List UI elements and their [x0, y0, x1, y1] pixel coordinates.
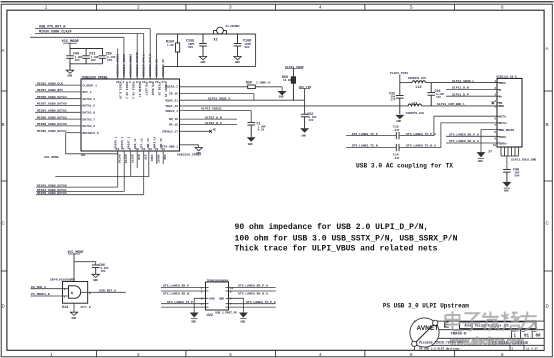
svg-text:STX_LANE0_RX_P_A: STX_LANE0_RX_P_A [449, 133, 479, 137]
svg-text:8: 8 [494, 131, 496, 134]
svg-text:25V: 25V [91, 59, 96, 62]
svg-text:AVNET: AVNET [417, 325, 439, 332]
label U22 [206, 288, 229, 308]
svg-text:PS_MODE3_B: PS_MODE3_B [31, 292, 50, 296]
wire bottom pin stub [156, 151, 158, 164]
svg-text:50V: 50V [515, 175, 520, 178]
pin names U8 left column [83, 84, 99, 135]
wire [149, 29, 151, 80]
svg-text:7: 7 [494, 124, 496, 127]
svg-text:10: 10 [493, 144, 497, 147]
svg-text:PS USB 3_0 ULPI Upstream: PS USB 3_0 ULPI Upstream [419, 347, 460, 350]
svg-text:01: 01 [524, 335, 530, 339]
wire net STX_LANE0_TX_N [161, 306, 206, 308]
inductor L12 [412, 81, 426, 83]
wire [117, 49, 119, 80]
svg-text:50V: 50V [245, 46, 250, 49]
wire output [81, 291, 126, 293]
wire input B [30, 295, 68, 297]
svg-text:U8: U8 [81, 154, 85, 158]
svg-text:2: 2 [137, 5, 140, 10]
capacitor C40 [503, 170, 511, 182]
svg-text:6.3V: 6.3V [258, 129, 265, 132]
svg-text:3: 3 [229, 5, 232, 10]
wire net MIO58_USB0_DATA6 [35, 125, 81, 127]
svg-text:16V: 16V [101, 270, 106, 273]
wire net right TX_N [229, 306, 276, 308]
wire ID [180, 93, 254, 95]
svg-text:TPD4E05U06DQA: TPD4E05U06DQA [207, 279, 229, 282]
svg-text:GNDC: GNDC [150, 155, 153, 162]
pin labels U8 top vertical [117, 52, 166, 77]
wire [123, 37, 125, 79]
svg-text:REFSEL0_8: REFSEL0_8 [83, 132, 99, 135]
svg-text:A: A [2, 48, 6, 53]
svg-text:STX_LANE0_RX_P: STX_LANE0_RX_P [163, 284, 189, 288]
wire net MIO43_USB0_DATA0 [36, 186, 118, 188]
svg-text:RESETB_27: RESETB_27 [138, 82, 141, 98]
svg-text:STX_LANE0_TX_P: STX_LANE0_TX_P [352, 132, 378, 136]
svg-text:SLP13_SHLD_GND: SLP13_SHLD_GND [511, 159, 536, 162]
svg-text:27P: 27P [391, 99, 396, 102]
svg-text:MIO57_USB0_DATA5: MIO57_USB0_DATA5 [37, 102, 67, 106]
glyph fa [482, 312, 500, 331]
wire net MIO57_USB0_DATA5 [35, 105, 81, 107]
svg-text:PG_PUB_A: PG_PUB_A [31, 285, 46, 289]
svg-text:GND: GND [478, 160, 483, 163]
svg-text:USB_OTG_RST_N: USB_OTG_RST_N [39, 26, 65, 30]
wire net MIO57_USB0_NXT [35, 91, 81, 93]
wire [73, 254, 75, 282]
ground [477, 152, 486, 157]
pin numbers U8 bottom [116, 148, 165, 151]
svg-text:USB3320_XO: USB3320_XO [162, 59, 165, 77]
and gate U14 [69, 286, 81, 298]
wire net MIO52_USB0_CLK [35, 84, 81, 86]
svg-text:10.0K: 10.0K [283, 79, 291, 82]
wire DP [180, 124, 238, 126]
svg-text:STX_LANE0_RX_N_A: STX_LANE0_RX_N_A [449, 139, 479, 143]
svg-text:STX_LANE0_RX_P_A: STX_LANE0_RX_P_A [238, 284, 268, 288]
svg-text:USB3320_SPK_R: USB3320_SPK_R [149, 54, 152, 77]
svg-text:1: 1 [50, 352, 53, 357]
svg-text:www.elecfans.com: www.elecfans.com [449, 337, 524, 348]
svg-text:USB_3_PROT_PU: USB_3_PROT_PU [215, 312, 237, 315]
svg-text:DATA3_7: DATA3_7 [83, 118, 96, 121]
svg-text:X2: X2 [214, 39, 218, 43]
pin names J7 [499, 82, 514, 145]
svg-text:L12: L12 [416, 85, 422, 89]
wire VDD33 [180, 109, 252, 111]
svg-text:MIO57_USB0_NXT: MIO57_USB0_NXT [37, 88, 63, 92]
svg-text:STX_LANE0_TX_P_A: STX_LANE0_TX_P_A [406, 132, 436, 136]
svg-text:STX_LANE0_RX_N_A: STX_LANE0_RX_N_A [238, 292, 268, 296]
svg-text:VBUS_21: VBUS_21 [165, 99, 178, 102]
wire [136, 34, 138, 80]
svg-text:GND: GND [248, 143, 253, 146]
svg-text:MIO54_USB0_DATA2: MIO54_USB0_DATA2 [37, 109, 67, 113]
svg-text:STX_LANE0_TX_P_A: STX_LANE0_TX_P_A [246, 300, 276, 304]
ground [92, 274, 99, 277]
svg-text:DATA4_9: DATA4_9 [83, 125, 96, 128]
wire REFSEL route [66, 133, 118, 154]
wire route [55, 151, 149, 177]
wire gnd left [194, 298, 205, 312]
glyph zi [463, 313, 481, 330]
svg-text:USB3320_VDD18: USB3320_VDD18 [130, 54, 133, 77]
svg-text:5: 5 [410, 352, 413, 357]
svg-text:PLACE_THIS: PLACE_THIS [390, 72, 408, 75]
svg-text:GND: GND [210, 298, 215, 301]
svg-text:SLP13_VBUS_L: SLP13_VBUS_L [452, 79, 474, 83]
svg-text:00: 00 [536, 335, 542, 339]
svg-text:CPEN13_17: CPEN13_17 [162, 130, 178, 133]
svg-text:4: 4 [89, 293, 91, 296]
svg-text:DATA1_5: DATA1_5 [83, 105, 96, 108]
svg-text:GND_DRAIN: GND_DRAIN [499, 129, 514, 132]
svg-text:DATA5_1: DATA5_1 [115, 136, 118, 148]
svg-text:24: 24 [155, 148, 159, 151]
wire net STX_LANE0_RX_N [446, 142, 497, 144]
glyph dian [445, 312, 462, 331]
svg-text:1.0K: 1.0K [167, 44, 174, 47]
svg-text:USB3320_XI: USB3320_XI [156, 59, 159, 77]
ground [278, 91, 287, 95]
ground [300, 128, 309, 132]
svg-text:GND: GND [72, 317, 77, 320]
wire bottom pin stub [130, 151, 132, 177]
svg-text:SPK_RGHT: SPK_RGHT [151, 82, 154, 96]
ground [247, 137, 256, 141]
svg-text:MIO52_USB0_CLK: MIO52_USB0_CLK [37, 81, 63, 85]
svg-text:NC: NC [213, 129, 217, 132]
capacitor C91 [82, 56, 90, 64]
svg-text:GND: GND [201, 61, 206, 64]
wire net USB_OTG_RST_N [35, 28, 150, 30]
svg-text:10: 10 [116, 148, 120, 151]
svg-text:SLP13_COM_GND_L: SLP13_COM_GND_L [437, 102, 465, 106]
ground [502, 182, 511, 187]
wire bottom pin stub [117, 151, 119, 187]
wire [70, 63, 103, 65]
svg-text:DP_16: DP_16 [169, 124, 178, 127]
ground [195, 148, 202, 151]
svg-text:VCC_MODE: VCC_MODE [62, 40, 80, 44]
svg-text:STX_LANE0_TX_N_A: STX_LANE0_TX_N_A [406, 144, 436, 148]
pin names U8 right column [162, 86, 178, 149]
wire net SLP13_D_P [446, 95, 497, 97]
wire net STX_LANE0_RX_P [161, 287, 206, 289]
svg-text:2.2OHM 1%: 2.2OHM 1% [256, 82, 271, 85]
svg-text:PS USB 3_0 ULPI Upstream: PS USB 3_0 ULPI Upstream [383, 302, 469, 310]
svg-text:ULPI2_VDD33: ULPI2_VDD33 [201, 107, 222, 111]
svg-text:VBAT_20: VBAT_20 [165, 105, 178, 108]
wire shield [506, 156, 508, 170]
wire net right RX_P [229, 287, 276, 289]
wire top rail [157, 33, 256, 35]
svg-text:GND: GND [396, 120, 401, 123]
wire [255, 34, 257, 67]
wire net MIO56_USB0_DATA4 [35, 98, 81, 100]
svg-text:ACYL_R: ACYL_R [81, 306, 91, 309]
wire net MIO44_USB0_DATA1 [36, 190, 124, 192]
svg-text:VCC_TUS: VCC_TUS [299, 86, 312, 89]
svg-text:USB3320_SPK_L: USB3320_SPK_L [143, 54, 146, 77]
svg-text:GND: GND [301, 135, 306, 138]
wire CTL GND [180, 145, 203, 155]
svg-text:16V: 16V [436, 96, 441, 99]
wire bottom rail from IC [180, 105, 409, 107]
svg-text:XTLIN_26: XTLIN_26 [157, 82, 160, 96]
svg-text:USB_RST_A: USB_RST_A [99, 289, 116, 293]
svg-text:MIO59_USB0_DATA7: MIO59_USB0_DATA7 [37, 129, 67, 133]
svg-text:GND: GND [196, 152, 201, 155]
wire bottom pin stub [136, 151, 138, 168]
wire [69, 43, 71, 55]
ground [234, 55, 241, 60]
watermark elecfans [445, 312, 538, 348]
svg-text:.01F: .01F [393, 157, 400, 160]
svg-text:C: C [2, 221, 6, 226]
svg-text:2: 2 [137, 352, 140, 357]
svg-text:D: D [546, 304, 550, 309]
svg-text:VDD33_B_20: VDD33_B_20 [118, 82, 121, 100]
svg-text:VDD18_CR_1: VDD18_CR_1 [125, 82, 128, 100]
wire net STX_LANE0_TX_P [161, 303, 206, 305]
svg-text:22: 22 [142, 148, 146, 151]
svg-text:9: 9 [494, 137, 496, 140]
wire to C96 [74, 261, 96, 263]
svg-text:U14: U14 [62, 306, 69, 310]
title field [460, 322, 537, 329]
capacitor C168 [234, 34, 242, 55]
svg-text:50V: 50V [188, 46, 193, 49]
pin numbers U8 top [116, 81, 165, 84]
wire bottom pin stub [162, 151, 164, 164]
svg-text:25V: 25V [75, 59, 80, 62]
ground [70, 312, 77, 315]
capacitor C34 series [396, 144, 399, 151]
resistor R50 [248, 85, 256, 89]
svg-text:ID_19: ID_19 [169, 93, 178, 96]
svg-text:B: B [2, 122, 5, 127]
wire RBIAS [180, 86, 248, 88]
svg-text:USB3320_VDD18: USB3320_VDD18 [123, 54, 126, 77]
svg-text:U22: U22 [207, 314, 213, 318]
svg-text:ULPI2_D_P: ULPI2_D_P [205, 121, 222, 125]
svg-text:GND: GND [504, 190, 509, 193]
svg-text:24.000MHZ: 24.000MHZ [226, 25, 240, 28]
wire DM [180, 118, 238, 120]
wire bottom rail [163, 66, 255, 68]
wire rail [70, 48, 103, 50]
svg-text:DATA2_6: DATA2_6 [83, 112, 96, 115]
svg-text:SSTX+: SSTX+ [499, 122, 508, 125]
svg-text:USB3131-30-A: USB3131-30-A [497, 76, 517, 79]
svg-text:GND: GND [219, 298, 224, 301]
svg-text:VDD18_CR_2: VDD18_CR_2 [131, 82, 134, 100]
svg-text:DATA0_4: DATA0_4 [83, 98, 96, 101]
wire net STX_LANE0_RX_P [446, 135, 497, 137]
inductor L11 [408, 104, 422, 106]
wire REFSEL [66, 132, 81, 134]
nc pin4 [492, 101, 495, 104]
wire vbus to connector [426, 82, 497, 84]
wire com gnd to connector [422, 105, 497, 107]
svg-text:ULPI2_D_N: ULPI2_D_N [205, 115, 222, 119]
svg-text:USB3320_RESETB: USB3320_RESETB [136, 52, 139, 77]
svg-text:FERRITE-1UH: FERRITE-1UH [406, 112, 424, 115]
svg-text:MIO58_USB0_DATA6: MIO58_USB0_DATA6 [37, 122, 67, 126]
svg-text:MIO56_USB0_DATA4: MIO56_USB0_DATA4 [37, 95, 67, 99]
wire [143, 34, 145, 80]
svg-text:3: 3 [229, 352, 232, 357]
IC U14 box [63, 282, 88, 304]
svg-text:6: 6 [501, 5, 504, 10]
svg-text:SLP13_D_N: SLP13_D_N [452, 86, 469, 90]
svg-text:MIO55_USB0_DATA3: MIO55_USB0_DATA3 [37, 115, 67, 119]
svg-text:MIO45_USB0_DATA5: MIO45_USB0_DATA5 [37, 191, 67, 195]
svg-text:GND: GND [235, 61, 240, 64]
wire bottom pin stub [123, 151, 125, 191]
IC U8 USB3320 body [81, 79, 180, 151]
svg-text:4: 4 [319, 5, 322, 10]
svg-text:VCC_MODE: VCC_MODE [68, 250, 84, 254]
svg-text:CLKOUT_1: CLKOUT_1 [83, 84, 98, 87]
wire net MIO36_USB0_CLK [35, 33, 144, 35]
svg-text:STX_LANE0_TX_N: STX_LANE0_TX_N [352, 144, 378, 148]
connector pin stubs [497, 83, 501, 143]
wire vbus stub [399, 75, 401, 96]
resistor R169 [176, 34, 180, 67]
wire net right TX_P [229, 303, 276, 305]
crystal X2 [214, 27, 227, 34]
title block outline [415, 321, 545, 350]
ground [395, 115, 404, 119]
svg-text:.01F: .01F [393, 129, 400, 132]
pin labels U8 bottom vertical [118, 155, 167, 164]
svg-text:23: 23 [162, 148, 166, 151]
svg-text:4: 4 [319, 352, 322, 357]
pin names U8 top inside vertical [118, 82, 167, 100]
svg-text:Thick trace for ULPI_VBUS and: Thick trace for ULPI_VBUS and related ne… [235, 245, 438, 254]
wire net STX_LANE0_RX_N [161, 290, 206, 292]
wire VCC_TUS stub [304, 89, 306, 115]
wire TX_N left [346, 147, 396, 149]
svg-text:GND: GND [93, 279, 98, 282]
svg-text:SLP13_D_P: SLP13_D_P [452, 92, 469, 96]
wire net MIO55_USB0_DATA3 [35, 118, 81, 120]
glyph shao [501, 312, 519, 331]
svg-text:MIO36_USB0_CLK24: MIO36_USB0_CLK24 [39, 31, 72, 35]
svg-text:R50: R50 [246, 81, 252, 85]
pins u22 [201, 287, 234, 306]
capacitor C166 [199, 34, 207, 55]
svg-text:MIO43_USB0_DATA0: MIO43_USB0_DATA0 [37, 183, 67, 187]
wire CPEN nc [180, 130, 211, 132]
svg-text:GND: GND [68, 75, 73, 78]
svg-text:6: 6 [494, 118, 496, 121]
svg-text:DATA6_1: DATA6_1 [121, 136, 124, 148]
pin names U8 bottom inside vertical [115, 136, 164, 148]
capacitor C92 [301, 114, 309, 128]
wire net MIO54_USB0_DATA2 [35, 111, 81, 113]
svg-text:J7: J7 [488, 149, 492, 153]
ground [66, 64, 73, 74]
wire gnd right [229, 298, 244, 312]
connector J7 body [497, 78, 522, 147]
wire [162, 67, 164, 79]
svg-text:VDD33_1: VDD33_1 [165, 110, 178, 113]
svg-text:VBAT_14: VBAT_14 [154, 136, 157, 148]
svg-text:16V: 16V [107, 59, 112, 62]
wire [130, 56, 132, 79]
capacitor C35 series [396, 132, 399, 139]
svg-text:XTLOUT_25: XTLOUT_25 [164, 82, 167, 98]
wire TX_N right [399, 123, 497, 148]
svg-text:DM_18: DM_18 [169, 118, 178, 121]
svg-text:4: 4 [494, 100, 496, 103]
svg-text:90 ohm impedance for USB 2.0 U: 90 ohm impedance for USB 2.0 ULPI_D_P/N, [235, 223, 429, 232]
svg-text:A: A [546, 46, 550, 51]
pin numbers J7 [493, 80, 497, 147]
svg-text:USB 3.0 AC coupling for TX: USB 3.0 AC coupling for TX [356, 163, 454, 171]
svg-text:11 4 27: 11 4 27 [526, 348, 538, 351]
wire [156, 34, 158, 79]
svg-text:GND: GND [279, 96, 284, 99]
wire top rail [400, 82, 412, 84]
svg-text:C: C [546, 221, 550, 226]
wire net VMODE [30, 36, 124, 38]
wire TX_P right [399, 116, 497, 135]
svg-text:VOL_MODE: VOL_MODE [44, 155, 59, 159]
capacitor C93 [427, 83, 435, 106]
svg-text:B: B [546, 122, 549, 127]
svg-text:6: 6 [501, 352, 504, 357]
wire VBUS [180, 99, 305, 101]
wire TX_P left [346, 135, 396, 137]
capacitor C1 [247, 122, 255, 137]
svg-text:1: 1 [45, 5, 48, 10]
svg-text:29: 29 [149, 148, 153, 151]
svg-text:FERRITE-1UH: FERRITE-1UH [408, 77, 426, 80]
glyph you [520, 312, 538, 331]
wire gnd [73, 303, 75, 312]
wire net SLP13_D_N [446, 89, 497, 91]
resistor R68 [291, 69, 295, 101]
svg-text:SPK_LEFT: SPK_LEFT [144, 82, 147, 96]
svg-text:USB3320_CPEN1: USB3320_CPEN1 [82, 75, 108, 79]
svg-text:100 ohm for USB 3.0 USB_SSTX_P: 100 ohm for USB 3.0 USB_SSTX_P/N, USB_SS… [235, 235, 458, 244]
ground [190, 313, 199, 318]
capacitor C96 [92, 265, 100, 274]
svg-text:D: D [2, 304, 6, 309]
svg-text:STX_LANE0_RX_N: STX_LANE0_RX_N [163, 292, 189, 296]
capacitor C89 [99, 56, 107, 64]
wire input A [30, 288, 68, 290]
wire net MIO45_USB0_DATA3 [36, 194, 144, 196]
logo AVNET circle [410, 318, 439, 347]
wire bottom pin stub [143, 151, 145, 195]
wire gnd drain [481, 130, 497, 153]
capacitor C32 [396, 96, 404, 115]
svg-text:USB3320_VDD33: USB3320_VDD33 [117, 54, 120, 77]
svg-text:NXT_3: NXT_3 [83, 91, 92, 94]
svg-text:GND: GND [240, 320, 245, 323]
svg-text:ULPI2_VBUS_A: ULPI2_VBUS_A [208, 96, 230, 100]
wire net right RX_N [229, 290, 276, 292]
IC U22 box [206, 282, 229, 310]
